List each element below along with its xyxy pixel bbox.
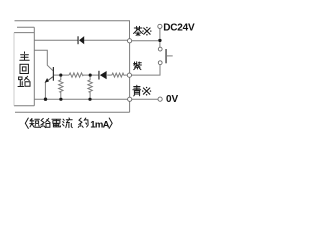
svg-text:0V: 0V bbox=[166, 94, 179, 105]
svg-text:DC24V: DC24V bbox=[163, 23, 195, 34]
svg-text:1mA: 1mA bbox=[90, 119, 109, 130]
